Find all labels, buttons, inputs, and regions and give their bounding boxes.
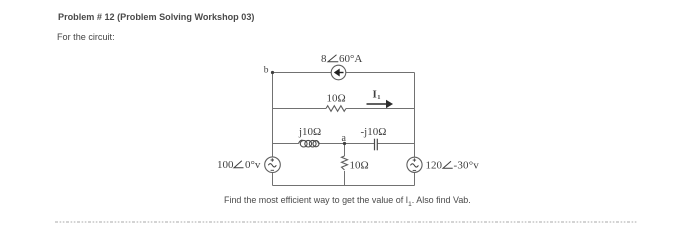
svg-text:-30°v: -30°v (454, 160, 480, 172)
current label I1 (373, 89, 381, 102)
svg-text:120: 120 (426, 160, 443, 172)
wire third row middle (319, 143, 375, 145)
svg-text:0°v: 0°v (245, 159, 261, 171)
svg-text:10Ω: 10Ω (350, 160, 369, 172)
svg-text:b: b (264, 66, 269, 76)
wire third row left (273, 143, 299, 145)
resistor vertical label 10ohm (350, 160, 369, 172)
svg-text:j10Ω: j10Ω (298, 126, 321, 138)
wire second row left (273, 108, 327, 110)
current arrow I1 (367, 100, 394, 108)
subtitle text (57, 32, 115, 42)
inductor j10 coil (299, 140, 320, 147)
voltage source 120V right (407, 157, 422, 172)
wire middle vertical (344, 144, 346, 157)
wire middle vertical below resistor (344, 171, 346, 186)
svg-text:10Ω: 10Ω (327, 93, 346, 105)
caption text (224, 195, 471, 208)
svg-text:-j10Ω: -j10Ω (361, 126, 387, 138)
wire left vertical (272, 73, 274, 158)
inductor label j10ohm (298, 126, 321, 138)
wire bottom (273, 185, 415, 187)
capacitor label -j10ohm (361, 126, 387, 138)
svg-text:1: 1 (377, 94, 380, 101)
resistor R horizontal 10ohm (326, 106, 346, 112)
voltage source label 120 angle -30 v (426, 160, 480, 172)
title text (58, 12, 254, 22)
wire left vertical below source (272, 173, 274, 186)
svg-text:8: 8 (321, 53, 327, 65)
svg-text:I: I (373, 89, 377, 101)
wire top left segment (273, 72, 332, 74)
svg-text:60°A: 60°A (339, 53, 362, 65)
node b label (264, 66, 269, 76)
resistor vertical 10ohm (342, 156, 348, 170)
node b dot (271, 71, 274, 74)
voltage source 100V left (265, 157, 281, 173)
node a dot (343, 142, 346, 145)
svg-text:100: 100 (217, 159, 234, 171)
wire right vertical below source (414, 173, 416, 186)
dashed separator line (55, 221, 638, 223)
node a label (342, 133, 347, 144)
svg-text:a: a (342, 133, 347, 144)
wire right vertical (414, 73, 416, 158)
current source 8A (331, 65, 346, 80)
wire third row right (378, 143, 414, 145)
resistor value label 10ohm (327, 93, 346, 105)
wire second row right (346, 108, 415, 110)
capacitor -j10 plates (375, 139, 378, 151)
wire top right segment (346, 72, 415, 74)
voltage source label 100 angle 0 v (217, 159, 261, 171)
current source label 8 angle 60 A (321, 53, 362, 65)
